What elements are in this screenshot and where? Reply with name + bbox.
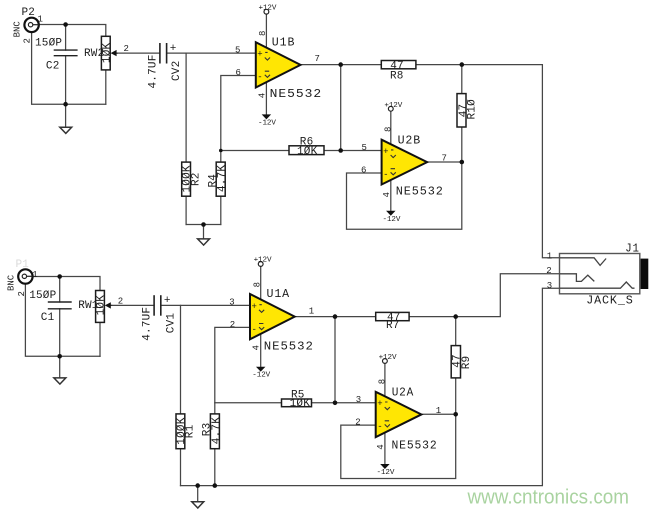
svg-text:4: 4 <box>258 93 268 98</box>
wire U1B -12V pin4 <box>265 82 267 115</box>
junction U2A output / R9 <box>453 412 458 417</box>
svg-text:8: 8 <box>253 282 263 287</box>
wire U2B -12V pin4 <box>390 180 392 211</box>
ground (output rail) <box>192 502 204 508</box>
wire BNC P2 ground side <box>32 33 106 104</box>
wire ground stem bottom input <box>59 356 61 378</box>
svg-text:2: 2 <box>23 38 33 43</box>
svg-text:NE5532: NE5532 <box>396 185 444 199</box>
svg-text:4.7UF: 4.7UF <box>147 54 159 88</box>
ground (bottom input) <box>54 378 66 384</box>
svg-text:1: 1 <box>32 270 37 280</box>
wire BNC P2 to RW2 top (net IN_L) <box>40 25 106 37</box>
capacitor C2 <box>54 50 78 56</box>
wire R8 to node A <box>416 65 560 258</box>
svg-text:+12V: +12V <box>379 354 397 362</box>
wire BNC P1 ground side <box>25 284 100 356</box>
junction at input rail / ground top <box>63 102 68 107</box>
svg-text:6: 6 <box>361 165 366 175</box>
junction U1B output to R6 <box>338 62 343 67</box>
wire R9 bottom to U2A output <box>455 376 457 414</box>
junction node A (R8/R10) <box>460 62 465 67</box>
svg-text:1ØK: 1ØK <box>297 146 318 158</box>
wire R2/R4 ground rail <box>186 224 221 226</box>
svg-text:2: 2 <box>230 320 235 330</box>
junction R6 / U2B pin5 <box>338 148 343 153</box>
svg-text:1ØK: 1ØK <box>101 42 113 63</box>
wire ground stem R2/R4 <box>203 225 205 239</box>
resistor R8 <box>381 61 416 69</box>
op-amp U2B <box>382 140 428 185</box>
wire ground stem top input <box>65 104 67 127</box>
wire C2 bottom to rail <box>65 56 67 104</box>
svg-text:2: 2 <box>17 291 27 296</box>
resistor R5 <box>282 399 312 407</box>
svg-text:3: 3 <box>229 298 234 308</box>
resistor R10 <box>457 94 466 127</box>
wire R10 bottom to U2B output <box>461 127 463 163</box>
svg-text:+: + <box>257 50 262 60</box>
wire CV1 to U1A pin3 <box>161 304 249 306</box>
svg-text:4: 4 <box>376 444 386 449</box>
wire RW2 bottom <box>105 70 107 104</box>
svg-text:2: 2 <box>118 296 123 306</box>
resistor R7 <box>376 312 409 320</box>
wire U1A -12V pin4 <box>260 335 262 368</box>
svg-text:U2A: U2A <box>392 385 415 399</box>
svg-text:U2B: U2B <box>398 133 422 147</box>
svg-text:+: + <box>377 399 382 409</box>
svg-text:+: + <box>383 147 388 157</box>
resistor R4 <box>216 162 225 196</box>
+12V supply U2B <box>384 102 402 111</box>
svg-text:C1: C1 <box>41 312 55 324</box>
svg-text:-: - <box>377 422 382 432</box>
resistor R9 <box>451 346 460 378</box>
svg-text:4: 4 <box>252 345 262 350</box>
op-amp U1B <box>256 42 301 87</box>
svg-text:4.7UF: 4.7UF <box>142 307 154 341</box>
wire R9 top <box>455 317 457 346</box>
svg-text:+: + <box>252 302 257 312</box>
wire R10 top <box>461 65 463 94</box>
wire R3 bottom <box>214 449 216 486</box>
svg-text:www.cntronics.com: www.cntronics.com <box>467 487 629 509</box>
svg-text:U1A: U1A <box>267 287 291 301</box>
svg-text:R7: R7 <box>386 320 400 332</box>
svg-text:3: 3 <box>356 395 361 405</box>
svg-text:R1: R1 <box>185 424 197 438</box>
wire R4 bottom <box>220 196 222 224</box>
wire U1A output <box>295 316 376 318</box>
svg-text:P2: P2 <box>22 7 36 19</box>
wire R2 top branch <box>185 53 187 162</box>
wire U2A -12V pin4 <box>384 433 386 465</box>
wire C2 top branch <box>65 25 67 51</box>
ground (R2/R4) <box>198 239 210 245</box>
svg-text:CV2: CV2 <box>171 61 183 81</box>
wire R6 right to U2B pin5 <box>324 150 381 152</box>
svg-text:BNC: BNC <box>13 21 23 38</box>
svg-text:-12V: -12V <box>377 469 395 477</box>
svg-text:+12V: +12V <box>384 102 402 110</box>
svg-text:8: 8 <box>377 379 387 384</box>
svg-text:C2: C2 <box>46 61 60 73</box>
connector P2 BNC <box>24 18 39 32</box>
svg-text:R2: R2 <box>190 172 202 186</box>
svg-text:4: 4 <box>382 192 392 197</box>
svg-text:1: 1 <box>547 252 552 262</box>
wire U1B pin6 to R4/R6 node <box>221 76 255 163</box>
wire ground rail to jack pin3 <box>181 288 560 485</box>
wire U2A +12V pin8 <box>384 364 386 398</box>
svg-text:R9: R9 <box>461 356 473 370</box>
svg-text:7: 7 <box>442 153 447 163</box>
wire U1B output <box>301 64 381 66</box>
svg-text:-12V: -12V <box>258 119 276 127</box>
wire RW1 bottom <box>99 322 101 356</box>
svg-text:-12V: -12V <box>252 372 270 380</box>
junction R5 / U2A pin3 <box>333 401 338 406</box>
+12V supply U1A <box>254 257 272 267</box>
svg-text:5: 5 <box>235 45 240 55</box>
svg-text:U1B: U1B <box>272 36 296 50</box>
wire R1 top branch <box>180 305 182 414</box>
resistor R1 <box>176 414 185 449</box>
svg-text:15ØP: 15ØP <box>29 290 56 302</box>
junction at BNC P1 / C1 tap <box>57 274 62 279</box>
svg-text:-: - <box>383 170 388 180</box>
svg-text:R1Ø: R1Ø <box>466 99 478 120</box>
resistor R6 <box>289 146 324 155</box>
-12V supply U1B <box>258 115 276 128</box>
wire CV2 to U1B pin5 <box>167 52 255 54</box>
svg-text:8: 8 <box>383 127 393 132</box>
-12V supply U2A <box>377 464 395 477</box>
wire U2B output <box>428 161 462 163</box>
junction R2/R4 ground rail <box>201 222 206 227</box>
capacitor C1 <box>48 302 72 309</box>
connector J1 jack <box>560 254 649 294</box>
op-amp U2A <box>376 392 422 437</box>
-12V supply U1A <box>252 367 270 380</box>
svg-text:J1: J1 <box>625 241 640 255</box>
svg-text:2: 2 <box>124 44 129 54</box>
svg-text:BNC: BNC <box>6 274 16 291</box>
svg-text:6: 6 <box>236 68 241 78</box>
svg-text:4.7K: 4.7K <box>217 165 229 192</box>
connector P1 BNC <box>18 269 33 283</box>
svg-text:+: + <box>164 295 171 307</box>
svg-text:NE5532: NE5532 <box>270 87 323 101</box>
wire U2A output <box>423 413 456 415</box>
svg-text:1: 1 <box>309 306 314 316</box>
wire R6 left segment <box>221 150 289 152</box>
potentiometer RW2 <box>101 36 118 70</box>
wire U1A output to R5 node <box>334 317 336 403</box>
wire RW2 wiper to CV2 <box>113 52 160 54</box>
resistor R3 <box>210 414 219 449</box>
svg-text:1ØK: 1ØK <box>290 398 311 410</box>
wire U2B +12V pin8 <box>390 111 392 145</box>
svg-text:1: 1 <box>38 15 43 25</box>
svg-text:+: + <box>170 43 177 55</box>
wire R5 left segment <box>215 402 282 404</box>
svg-text:7: 7 <box>315 54 320 64</box>
svg-text:4.7K: 4.7K <box>211 417 223 444</box>
svg-text:NE5532: NE5532 <box>264 339 314 353</box>
svg-text:NE5532: NE5532 <box>392 439 438 453</box>
svg-text:1: 1 <box>436 406 441 416</box>
svg-text:2: 2 <box>355 418 360 428</box>
wire R1 bottom <box>180 449 182 486</box>
svg-text:1ØK: 1ØK <box>96 295 108 316</box>
svg-text:+12V: +12V <box>254 257 272 265</box>
svg-text:R8: R8 <box>390 70 404 82</box>
resistor R2 <box>182 162 191 196</box>
wire BNC P1 to RW1 top (net IN_R) <box>33 277 100 291</box>
+12V supply U2A <box>379 354 397 364</box>
junction at BNC P2 / C2 tap <box>63 22 68 27</box>
junction ground rail / R3 <box>213 483 218 488</box>
svg-text:P1: P1 <box>16 259 30 271</box>
capacitor CV2 polarized <box>160 43 167 64</box>
wire RW1 wiper to CV1 <box>107 304 154 306</box>
svg-text:+12V: +12V <box>259 5 277 13</box>
wire U2A feedback loop <box>341 414 456 478</box>
svg-text:5: 5 <box>362 143 367 153</box>
wire R5 right to U2A pin3 <box>312 402 376 404</box>
svg-text:-12V: -12V <box>383 216 401 224</box>
svg-text:CV1: CV1 <box>165 313 177 334</box>
wire U1A +12V pin8 <box>260 267 262 301</box>
svg-text:8: 8 <box>258 31 268 36</box>
wire C1 top branch <box>59 277 61 303</box>
wire ground stem output rail <box>197 486 199 502</box>
op-amp U1A <box>250 294 295 339</box>
+12V supply U1B <box>259 5 277 15</box>
junction U1A output to R5 <box>333 314 338 319</box>
wire U2B feedback loop <box>347 162 462 229</box>
svg-text:-: - <box>257 73 262 83</box>
svg-text:-: - <box>252 325 257 335</box>
junction at input rail / ground bottom <box>57 354 62 359</box>
ground (top input) <box>60 127 72 133</box>
svg-text:2: 2 <box>546 266 551 276</box>
wire R7 to node B to jack pin2 <box>409 274 559 317</box>
junction node B (R7/R9) <box>453 314 458 319</box>
wire U1B output to R6 node <box>340 65 342 151</box>
potentiometer RW1 <box>96 291 113 323</box>
wire U1B +12V pin8 <box>265 14 267 48</box>
-12V supply U2B <box>383 211 401 224</box>
wire R2 bottom <box>185 196 187 224</box>
junction R6 node / R4 <box>219 149 223 153</box>
capacitor CV1 polarized <box>154 295 161 316</box>
wire C1 bottom to rail <box>59 309 61 357</box>
svg-text:3: 3 <box>547 281 552 291</box>
wire U1A pin2 to R3/R5 node <box>215 327 249 414</box>
junction U2B output / R10 <box>460 160 465 165</box>
junction ground rail / R1 ground <box>195 483 200 488</box>
svg-text:JACK_S: JACK_S <box>586 294 634 308</box>
svg-text:15ØP: 15ØP <box>35 38 62 50</box>
